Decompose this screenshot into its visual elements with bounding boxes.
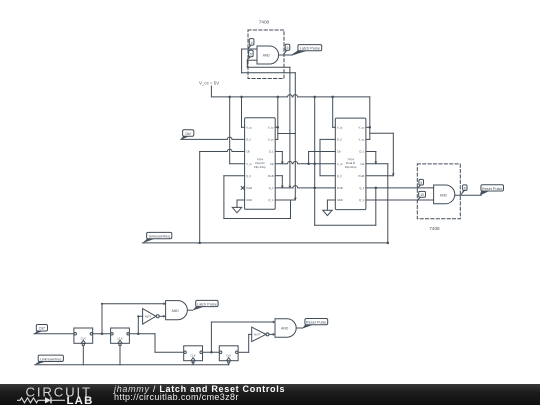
pin bubble 8 of U3 — [463, 185, 467, 191]
IC U2 7474 Dual D Flip-Flop — [245, 118, 276, 210]
svg-text:GND: GND — [246, 198, 252, 202]
svg-text:5: 5 — [250, 53, 252, 57]
wire FF3 clock stem — [192, 363, 194, 365]
svg-text:NOT: NOT — [145, 314, 152, 318]
junction on bus at x314 — [313, 96, 316, 99]
svg-text:D_1: D_1 — [360, 150, 365, 154]
svg-text:Q_0: Q_0 — [337, 174, 342, 178]
junction U4 Q1 row — [375, 187, 378, 190]
arrow into AND3 top — [273, 321, 275, 324]
junction arrow pin4 net at Q1 row — [288, 186, 291, 188]
wire U2 Clk down to Unknownfreq rail — [199, 152, 201, 243]
svg-text:4: 4 — [251, 41, 253, 45]
svg-text:PreB: PreB — [246, 186, 252, 190]
footer bar — [0, 384, 540, 405]
wire AND2 output — [187, 309, 192, 311]
svg-text:Flip-Flop: Flip-Flop — [254, 165, 266, 169]
svg-text:D_0: D_0 — [246, 138, 251, 142]
wire bus to U4 Vcc left — [332, 97, 334, 127]
flag Latch Pulse (top) — [298, 45, 322, 51]
unconnected marker U4 PreB left — [315, 187, 336, 189]
svg-text:Clk: Clk — [246, 150, 250, 154]
wire U4 D1 to Clk jog — [366, 151, 376, 153]
wire clk net U2 to U4 — [275, 161, 335, 163]
flag Reset Pulse (top) — [481, 185, 504, 191]
wire Vcc jog at U4 right — [370, 132, 394, 134]
svg-text:AND: AND — [440, 193, 448, 197]
pin bubble 9 of U3 — [419, 179, 424, 185]
wire NOT1 out to AND2 — [159, 315, 165, 317]
pin bubble 4 of U1 — [249, 39, 254, 46]
svg-text:8: 8 — [464, 187, 466, 191]
AND gate A2 — [166, 301, 188, 320]
junction clk net at x308 — [307, 162, 310, 165]
footer logo — [0, 384, 110, 405]
AND gate A3 — [275, 319, 296, 337]
svg-text:V_cc: V_cc — [359, 125, 365, 129]
junction at U4 right Vcc pin — [369, 126, 372, 129]
flag Reset Pulse (bottom) — [305, 319, 328, 325]
junction arrow PreB-Q1 jog U2 — [281, 186, 284, 188]
wire NOT2 out to AND3 — [269, 333, 275, 335]
junction FF1-FF2 — [101, 333, 104, 336]
wire U1 pin4 input — [242, 48, 257, 50]
junction NOT1 tap — [137, 333, 140, 336]
svg-text:V_cc = 5V: V_cc = 5V — [199, 81, 219, 86]
wire U2 Q1 row — [275, 186, 315, 188]
junction rail at x199 — [198, 242, 201, 245]
junction on bus at x230 — [228, 96, 231, 99]
flag Latch Pulse (bottom) — [196, 300, 218, 306]
ground symbol G2 — [323, 210, 332, 215]
wire FF3 to FF4 — [203, 351, 220, 353]
svg-text:AND: AND — [263, 54, 271, 58]
svg-text:Reset Pulse: Reset Pulse — [306, 321, 326, 325]
svg-text:Clk*: Clk* — [185, 132, 192, 136]
flag Unknownfreq (middle) — [147, 232, 172, 238]
wire U2 Q0 out left — [224, 175, 245, 177]
svg-text:V_cc: V_cc — [337, 125, 343, 129]
D flip-flop block FF1 — [74, 328, 93, 343]
wire tap up to AND2 top input — [101, 304, 103, 334]
wire bus corner to U4 right Vcc — [369, 97, 371, 139]
AND gate U1 — [257, 46, 279, 64]
junction arrow D1-Clk jog U2 — [281, 162, 284, 164]
wire U2 GND to ground — [237, 199, 245, 201]
svg-text:Q_1: Q_1 — [269, 186, 274, 190]
svg-text:PreB: PreB — [268, 174, 274, 178]
svg-text:V_cc: V_cc — [268, 138, 274, 142]
junction arrow pin5 net at Q1b row — [294, 198, 297, 200]
wire FF4 out — [238, 351, 249, 353]
junction at U2 right Vcc pin — [277, 126, 280, 129]
NOT gate N2 — [252, 327, 266, 342]
wire U1 pin5 drop to Q1b of U2 — [289, 67, 291, 188]
wire bus drop x314 long vertical — [314, 97, 316, 225]
wire U2 D1 to Clk jog — [275, 151, 282, 153]
wire tap up to AND3 top input — [210, 322, 212, 352]
wire U4 GND to ground — [327, 199, 335, 201]
unconnected marker U2 PreB left — [241, 187, 244, 190]
D flip-flop block FF4 — [219, 346, 238, 361]
svg-text:NOT: NOT — [254, 332, 261, 336]
dashed package box U1 — [248, 30, 284, 79]
pin bubble 10 of U3 — [419, 191, 426, 197]
NOT gate N1 — [143, 309, 156, 325]
wire U4 Q1b to U3 pin10 — [366, 199, 434, 201]
svg-text:7408: 7408 — [259, 20, 270, 25]
wire U4 Clk row to rail riser — [366, 163, 388, 165]
wire Unknownfreq rail (bottom) — [35, 364, 229, 366]
svg-text:V_cc: V_cc — [268, 125, 274, 129]
svg-text:AND: AND — [172, 309, 180, 313]
svg-text:AND: AND — [281, 327, 289, 331]
svg-text:Latch Pulse: Latch Pulse — [197, 302, 217, 306]
wire U1 output to Latch Pulse — [279, 54, 292, 56]
wire U1 pin4 drop to Q1 of U2 — [294, 73, 296, 200]
svg-text:Latch Pulse: Latch Pulse — [300, 46, 320, 51]
wire FF4 clock stem — [228, 363, 230, 365]
junction arrow Vcc to PreB U4 — [392, 174, 395, 176]
wire bus drop to U2 right Vcc — [277, 97, 279, 139]
junction arrow D1-Clk jog U4 — [374, 162, 377, 164]
junction x314 at Q1 row — [313, 187, 316, 190]
wire U4 Q1b to bottom loop — [375, 188, 377, 225]
svg-text:V_cc: V_cc — [246, 125, 252, 129]
junction rail end — [387, 242, 390, 245]
svg-text:Clk: Clk — [361, 162, 365, 166]
svg-text:9: 9 — [420, 181, 422, 185]
flag Clk* (bottom) — [36, 325, 47, 332]
junction on bus at x333 — [331, 96, 334, 99]
flag Unknownfreq (bottom) — [38, 355, 63, 361]
dashed package box U3 — [417, 164, 460, 219]
flag Clk* (top) — [183, 130, 194, 137]
pin bubble 6 of U1 — [285, 44, 290, 50]
AND gate U3 — [434, 185, 455, 204]
svg-text:Q_1: Q_1 — [359, 186, 364, 190]
svg-text:V_cc: V_cc — [359, 138, 365, 142]
wire AND3 output — [296, 327, 302, 329]
svg-text:6: 6 — [287, 46, 289, 50]
wire U2 Q1b down around — [290, 200, 292, 219]
Vcc bus wire — [211, 95, 369, 97]
wire FF2 clock stem — [119, 346, 121, 365]
D flip-flop block FF3 — [184, 346, 203, 361]
svg-text:10: 10 — [420, 193, 424, 197]
arrow into AND3 bottom — [273, 333, 275, 336]
wire Unknownfreq rail (middle) — [142, 242, 387, 244]
wire U2 Q1b row — [275, 199, 295, 201]
svg-text:PreB: PreB — [359, 174, 365, 178]
svg-text:GND: GND — [337, 198, 343, 202]
IC U4 7474 Dual D Flip-Flop — [335, 118, 366, 210]
svg-text:PreB: PreB — [337, 186, 343, 190]
svg-text:V_cc: V_cc — [246, 162, 252, 166]
svg-text:Flip-Flop: Flip-Flop — [345, 165, 357, 169]
wire into U2 Clk — [200, 149, 245, 151]
junction on bus at x278 — [277, 96, 280, 99]
wire bus to U2 Vcc left — [241, 97, 243, 127]
wire U4 Q1 to U3 pin9 — [366, 187, 434, 189]
wire FF1 to FF2 — [93, 333, 111, 335]
pin bubble 5 of U1 — [249, 50, 253, 57]
svg-text:Q'_1: Q'_1 — [359, 198, 365, 202]
wire U1 pin5 input — [247, 59, 257, 61]
junction on bus at x241 — [240, 96, 243, 99]
junction dot NOT1 input corner — [137, 315, 139, 317]
wire U2 right PreB to Q1 jog — [275, 175, 282, 177]
wire U3 output to Reset Pulse — [455, 194, 481, 196]
wire bus to U2 ClrB — [229, 97, 231, 164]
arrow into AND2 bottom — [163, 315, 165, 318]
svg-text:Unknownfreq: Unknownfreq — [149, 235, 170, 239]
junction corner AND2 feed — [101, 303, 103, 305]
junction x314 at clk row — [313, 162, 316, 165]
svg-text:Clk: Clk — [337, 150, 341, 154]
svg-text:D_0: D_0 — [337, 138, 342, 142]
svg-text:Reset Pulse: Reset Pulse — [482, 187, 502, 191]
junction FF3-FF4 — [210, 351, 213, 354]
footer text — [114, 385, 285, 402]
svg-text:Unknownfreq: Unknownfreq — [40, 357, 61, 361]
wire FF1 clock stem — [82, 346, 84, 365]
wire FF2 output run — [129, 333, 155, 335]
wire FF2 to FF3 drop — [154, 334, 156, 353]
svg-text:Q'_1: Q'_1 — [268, 198, 274, 202]
svg-text:Clk: Clk — [270, 162, 274, 166]
D flip-flop block FF2 — [111, 328, 130, 343]
arrow into AND2 top — [163, 302, 165, 305]
svg-text:Clk*: Clk* — [39, 327, 46, 331]
wire Clk* to U2 D0 — [181, 137, 245, 139]
svg-text:D_1: D_1 — [269, 150, 274, 154]
wire rail riser — [387, 164, 389, 243]
ground symbol G1 — [232, 207, 241, 212]
svg-text:Q_0: Q_0 — [246, 174, 251, 178]
wire NOT1 tap riser — [137, 316, 139, 334]
wire V_cc stub — [210, 86, 212, 97]
wire bottom loop — [315, 224, 376, 226]
svg-text:7408: 7408 — [429, 226, 440, 231]
svg-text:LAB: LAB — [67, 395, 94, 405]
wire Vcc jog at U2 right — [278, 133, 296, 135]
wire U4 D0 feedback from Q0 — [320, 138, 335, 140]
svg-text:V_cc: V_cc — [337, 162, 343, 166]
wire clk riser to U4 Clk — [308, 152, 310, 164]
wire Clk* to FF1 — [34, 333, 74, 335]
